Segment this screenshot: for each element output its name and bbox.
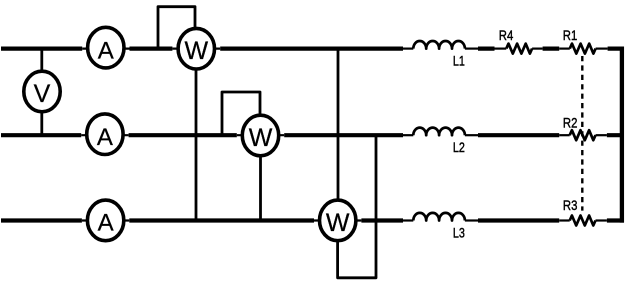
svg-text:A: A bbox=[98, 38, 114, 65]
resistor R1 bbox=[570, 44, 596, 54]
wire voltmeter tap bbox=[40, 49, 43, 136]
svg-text:A: A bbox=[97, 124, 113, 151]
wire W1 to phase L3 bbox=[195, 49, 198, 221]
inductor L1 bbox=[413, 41, 465, 49]
wire W1 potential loop bbox=[158, 7, 195, 49]
voltmeter V bbox=[24, 71, 60, 112]
wire R4 lead right bbox=[532, 47, 543, 49]
resistor R3 bbox=[570, 216, 596, 226]
wire A2 stub bbox=[81, 134, 128, 136]
svg-text:V: V bbox=[34, 80, 51, 108]
wire phase L2 bus segment 2 bbox=[129, 133, 237, 137]
wire W2 potential loop bbox=[222, 92, 260, 135]
resistor R4 bbox=[506, 44, 532, 54]
wire ganged coupling dashed R1-R2-R3 bbox=[581, 56, 583, 211]
wire phase L1 bus segment 3 bbox=[220, 46, 403, 50]
resistor R2 bbox=[570, 130, 596, 140]
wire W1 stub bbox=[172, 47, 220, 49]
wire R4-R1 segment bbox=[543, 46, 560, 50]
wire L3 lead right bbox=[465, 219, 478, 221]
wire star-point bus vertical bbox=[620, 47, 624, 223]
wire R4 lead left bbox=[495, 47, 507, 49]
wire R2 lead right bbox=[596, 134, 607, 136]
svg-text:W: W bbox=[249, 124, 273, 152]
ammeter A phase 2 bbox=[87, 114, 123, 155]
wire L2-R2 segment bbox=[478, 133, 559, 137]
wire W2 stub bbox=[237, 134, 284, 136]
svg-text:A: A bbox=[98, 210, 114, 237]
svg-text:R3: R3 bbox=[563, 198, 578, 213]
wire A1 stub bbox=[82, 47, 129, 49]
wire A3 stub bbox=[82, 219, 129, 221]
wire phase L1 bus segment 1 bbox=[1, 46, 82, 50]
wire phase L2 bus segment 3 bbox=[284, 133, 403, 137]
wire phase L3 bus segment 1 bbox=[1, 218, 82, 222]
wire L1 lead left bbox=[403, 47, 413, 49]
wire R3 lead left bbox=[559, 219, 570, 221]
wire L1-R4 segment bbox=[478, 46, 495, 50]
inductor L2 bbox=[413, 128, 465, 136]
wire R1 lead left bbox=[559, 47, 570, 49]
wire W3 potential loop bbox=[338, 135, 376, 278]
wire phase L1 bus segment 2 bbox=[130, 46, 173, 50]
wire L2 lead right bbox=[465, 134, 478, 136]
ammeter A phase 1 bbox=[88, 27, 124, 68]
svg-text:R2: R2 bbox=[563, 115, 578, 130]
wire phase L2 bus segment 1 bbox=[1, 133, 81, 137]
svg-text:L1: L1 bbox=[453, 54, 465, 69]
svg-text:R1: R1 bbox=[563, 28, 578, 43]
wattmeter W phase 2 bbox=[242, 115, 278, 156]
wire R3 to star bus corner bbox=[607, 218, 624, 222]
svg-text:W: W bbox=[326, 209, 350, 237]
wire R1 to star bus corner bbox=[608, 46, 624, 50]
wire W3 stub bbox=[314, 219, 361, 221]
svg-text:W: W bbox=[184, 37, 208, 65]
svg-text:L2: L2 bbox=[453, 140, 465, 155]
wire R2 lead left bbox=[559, 134, 570, 136]
wire phase L3 bus segment 2 bbox=[129, 218, 314, 222]
wattmeter W phase 3 bbox=[320, 200, 356, 241]
wire R2 to star bus bbox=[607, 133, 624, 137]
wire L2 lead left bbox=[403, 134, 413, 136]
wire W2 to phase L3 bbox=[259, 135, 262, 220]
wattmeter W phase 1 bbox=[178, 28, 214, 69]
wire L3 lead left bbox=[403, 219, 413, 221]
svg-text:L3: L3 bbox=[453, 225, 465, 240]
wire L3-R3 segment bbox=[478, 218, 559, 222]
svg-text:R4: R4 bbox=[499, 28, 514, 43]
ammeter A phase 3 bbox=[87, 200, 123, 241]
inductor L3 bbox=[413, 213, 465, 221]
wire phase L1 to W3 bbox=[337, 49, 340, 221]
wire phase L3 bus segment 3 bbox=[361, 218, 403, 222]
wire R3 lead right bbox=[596, 219, 607, 221]
wire R1 lead right bbox=[596, 47, 608, 49]
wire L1 lead right bbox=[465, 47, 478, 49]
